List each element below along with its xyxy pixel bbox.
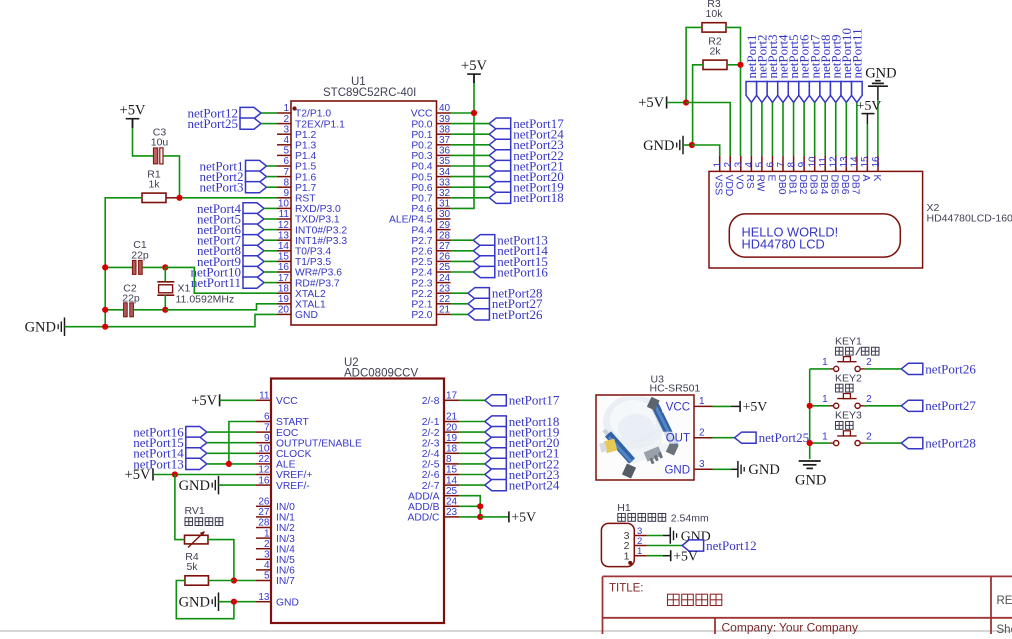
svg-text:40: 40 xyxy=(439,103,451,114)
svg-text:netPort18: netPort18 xyxy=(513,190,564,205)
svg-text:INT0#/P3.2: INT0#/P3.2 xyxy=(295,225,347,236)
svg-text:10: 10 xyxy=(807,156,818,168)
svg-text:38: 38 xyxy=(439,124,451,135)
svg-text:EOC: EOC xyxy=(276,428,299,439)
svg-text:GND: GND xyxy=(25,320,56,336)
junction xyxy=(807,440,813,446)
wire xyxy=(459,452,485,454)
svg-text:RS: RS xyxy=(744,175,755,189)
wire C1 right xyxy=(143,266,166,268)
svg-text:netPort25: netPort25 xyxy=(187,116,238,131)
svg-text:11.0592MHz: 11.0592MHz xyxy=(176,294,235,306)
net port netPort6 xyxy=(797,34,812,103)
net port netPort15 xyxy=(473,254,548,269)
wire xyxy=(459,463,485,465)
wire +5V to VCC xyxy=(220,399,256,401)
wire KEY2 left xyxy=(810,405,830,407)
power +5V (ADD) xyxy=(509,510,536,525)
power +5V (H1) xyxy=(671,548,698,563)
svg-text:P4.6: P4.6 xyxy=(411,204,432,215)
junction xyxy=(471,110,477,116)
wire xyxy=(207,442,256,444)
svg-text:18: 18 xyxy=(446,444,458,455)
wire GND xyxy=(683,144,692,146)
op-amp U1 body (IC STC89C52RC-40I) xyxy=(291,76,437,325)
net port netPort4 xyxy=(776,34,791,103)
svg-text:IN/5: IN/5 xyxy=(276,555,295,566)
svg-text:netPort25: netPort25 xyxy=(759,430,810,445)
wire xyxy=(267,176,278,178)
svg-text:P1.5: P1.5 xyxy=(295,162,316,173)
svg-text:2/-2: 2/-2 xyxy=(422,428,440,439)
svg-text:11: 11 xyxy=(818,157,829,168)
net port netPort13 xyxy=(473,233,548,248)
svg-text:netPort11: netPort11 xyxy=(849,28,864,78)
wire xyxy=(459,484,485,486)
net port netPort20 xyxy=(489,169,564,184)
net port netPort10 xyxy=(190,264,264,279)
wire xyxy=(451,292,468,294)
wire R1 to GND rail xyxy=(105,198,142,327)
net port netPort5 xyxy=(786,34,801,102)
svg-text:4: 4 xyxy=(744,162,755,168)
svg-text:3: 3 xyxy=(283,124,289,135)
net port netPort2 xyxy=(199,169,266,184)
svg-text:27: 27 xyxy=(439,241,451,252)
wire START to ALE xyxy=(229,422,256,464)
wire xyxy=(264,271,277,273)
svg-text:P0.7: P0.7 xyxy=(411,194,432,205)
net port netPort3 xyxy=(199,180,266,195)
svg-text:5k: 5k xyxy=(186,561,198,573)
svg-text:DB2: DB2 xyxy=(797,175,808,195)
power +5V (LCD VDD) xyxy=(638,95,666,111)
wire xyxy=(451,144,490,146)
sensor module U3 HC-SR501 xyxy=(596,374,700,481)
ground (LCD K) xyxy=(865,66,896,87)
svg-text:T2EX/P1.1: T2EX/P1.1 xyxy=(295,119,345,130)
svg-text:+5V: +5V xyxy=(743,399,768,414)
svg-text:11: 11 xyxy=(279,209,290,220)
svg-text:RD#/P3.7: RD#/P3.7 xyxy=(295,278,340,289)
wire (power stem) xyxy=(663,555,671,557)
wire xyxy=(264,218,277,220)
net port netPort8 xyxy=(818,34,833,102)
wire H1 pin1 xyxy=(647,555,663,557)
net port netPort18 xyxy=(489,190,564,205)
wire (power stem) xyxy=(132,119,134,128)
svg-text:netPort28: netPort28 xyxy=(925,436,976,451)
wire XTAL2 net xyxy=(165,267,277,293)
svg-text:A: A xyxy=(860,175,871,182)
svg-text:10: 10 xyxy=(278,199,290,210)
svg-text:26: 26 xyxy=(439,252,451,263)
wire xyxy=(451,250,474,252)
U2 pin numbers xyxy=(258,391,457,603)
ground (VREF-) xyxy=(179,476,219,495)
svg-text:P2.6: P2.6 xyxy=(411,247,432,258)
svg-text:2/-6: 2/-6 xyxy=(422,470,440,481)
svg-text:18: 18 xyxy=(278,283,290,294)
svg-text:HD44780 LCD: HD44780 LCD xyxy=(742,237,825,252)
svg-text:+5V: +5V xyxy=(191,393,217,409)
svg-text:23: 23 xyxy=(439,283,451,294)
svg-text:36: 36 xyxy=(439,146,451,157)
svg-text:GND: GND xyxy=(795,473,826,489)
U1 pin numbers xyxy=(278,103,451,315)
svg-text:Your Company: Your Company xyxy=(779,621,858,635)
svg-text:22p: 22p xyxy=(122,293,140,305)
resistor RV1 (photoresistor) xyxy=(185,505,209,548)
net port netPort7 xyxy=(197,233,264,248)
svg-text:P2.5: P2.5 xyxy=(411,257,432,268)
net port netPort9 xyxy=(828,34,843,102)
svg-text:ADD/B: ADD/B xyxy=(408,502,440,513)
svg-text:netPort12: netPort12 xyxy=(706,538,757,553)
net port netPort2 xyxy=(755,34,770,102)
net port netPort24 xyxy=(485,478,560,493)
net port netPort18 xyxy=(485,414,560,429)
svg-text:H1: H1 xyxy=(617,502,631,514)
wire H1 pin2 xyxy=(647,545,682,547)
wire xyxy=(451,260,474,262)
power +5V (U1 VCC) xyxy=(461,58,487,83)
svg-text:REV: REV xyxy=(997,595,1012,607)
wire xyxy=(761,103,763,157)
X2 pin stubs xyxy=(720,156,878,171)
svg-text:1: 1 xyxy=(637,546,642,557)
wire KEY1 right xyxy=(865,368,902,370)
net port netPort8 xyxy=(197,243,264,258)
svg-text:2: 2 xyxy=(866,394,872,405)
ground (H1) xyxy=(670,527,710,544)
svg-text:IN/0: IN/0 xyxy=(276,502,295,513)
svg-text:P0.0: P0.0 xyxy=(411,119,432,130)
junction xyxy=(683,99,689,105)
ground (keys) xyxy=(795,461,826,489)
svg-text:+5V: +5V xyxy=(461,58,487,74)
wire +5V to VREF/+ xyxy=(153,474,256,476)
svg-text:22: 22 xyxy=(258,454,270,465)
push button KEY3 xyxy=(822,410,872,446)
svg-text:netPort3: netPort3 xyxy=(199,180,243,195)
svg-text:IN/6: IN/6 xyxy=(276,566,295,577)
net port netPort3 xyxy=(765,34,780,102)
svg-text:KEY2: KEY2 xyxy=(835,372,862,384)
svg-text:P0.5: P0.5 xyxy=(411,172,432,183)
capacitor C2 xyxy=(124,303,134,317)
wire R3 right to VO xyxy=(726,27,741,156)
svg-text:19: 19 xyxy=(446,433,458,444)
svg-text:16: 16 xyxy=(258,475,270,486)
junction xyxy=(477,514,483,520)
page edge line xyxy=(0,630,1012,632)
junction xyxy=(176,195,182,201)
wire xyxy=(824,103,826,157)
svg-text:1: 1 xyxy=(822,394,828,405)
svg-text:netPort24: netPort24 xyxy=(509,478,560,493)
wire +5V to P4.6 xyxy=(451,83,475,208)
wire xyxy=(451,165,490,167)
wire C3 to RST node xyxy=(163,156,179,198)
svg-text:netPort17: netPort17 xyxy=(509,393,560,408)
svg-text:6: 6 xyxy=(264,412,270,423)
svg-text:5: 5 xyxy=(755,162,766,168)
net port netPort1 xyxy=(744,34,759,102)
svg-text:DB3: DB3 xyxy=(807,175,818,195)
wire xyxy=(459,474,485,476)
wire xyxy=(459,431,485,433)
svg-text:RXD/P3.0: RXD/P3.0 xyxy=(295,204,341,215)
net port netPort28 xyxy=(468,286,543,301)
label xyxy=(836,422,854,430)
svg-text:29: 29 xyxy=(439,220,451,231)
svg-text:1: 1 xyxy=(713,162,724,168)
svg-text:P0.3: P0.3 xyxy=(411,151,432,162)
wire xyxy=(750,103,752,157)
power +5V (U2 VCC) xyxy=(191,393,219,409)
net port netPort5 xyxy=(197,211,264,226)
wire R2 left to GND xyxy=(693,65,703,145)
net port netPort10 xyxy=(839,28,854,103)
net port netPort21 xyxy=(485,446,560,461)
net port netPort11 xyxy=(849,28,864,102)
svg-text:HC-SR501: HC-SR501 xyxy=(650,383,701,395)
svg-text:DB0: DB0 xyxy=(776,175,787,195)
net port netPort28 xyxy=(901,436,976,451)
svg-text:2/-8: 2/-8 xyxy=(422,396,440,407)
svg-text:15: 15 xyxy=(446,465,458,476)
svg-text:P0.6: P0.6 xyxy=(411,183,432,194)
junction xyxy=(172,471,178,477)
wire KEY1 left xyxy=(810,368,830,370)
net port netPort12 xyxy=(187,105,261,120)
U1 pin stubs xyxy=(277,113,451,314)
svg-text:OUTPUT/ENABLE: OUTPUT/ENABLE xyxy=(276,438,362,449)
junction xyxy=(689,142,695,148)
svg-text:5: 5 xyxy=(264,571,270,582)
wire xyxy=(264,260,277,262)
svg-text:P0.1: P0.1 xyxy=(411,130,432,141)
wire xyxy=(459,421,485,423)
wire xyxy=(261,112,277,114)
wire C1 left xyxy=(105,266,132,268)
wire xyxy=(459,399,485,401)
wire GND to U1 pin20 xyxy=(105,314,277,326)
H1 pin numbers xyxy=(624,526,643,562)
svg-text:GND: GND xyxy=(295,310,318,321)
wire H1 pin3 xyxy=(647,535,663,537)
net port netPort16 xyxy=(133,425,207,440)
net port netPort27 xyxy=(901,398,976,413)
svg-text:2: 2 xyxy=(264,539,270,550)
svg-text:24: 24 xyxy=(439,273,451,284)
svg-text:KEY3: KEY3 xyxy=(835,410,862,422)
wire KEY2 right xyxy=(865,405,902,407)
svg-text:23: 23 xyxy=(446,507,458,518)
junction xyxy=(807,403,813,409)
wire xyxy=(451,133,490,135)
wire C2 right xyxy=(134,309,166,311)
wire (power stem) xyxy=(731,405,740,407)
wire xyxy=(264,229,277,231)
svg-text:6: 6 xyxy=(765,162,776,168)
wire R3 left to +5V xyxy=(686,27,702,102)
svg-text:P2.7: P2.7 xyxy=(411,236,432,247)
wire KEY3 left xyxy=(810,442,830,444)
svg-text:P1.7: P1.7 xyxy=(295,183,316,194)
svg-text:GND: GND xyxy=(179,478,210,494)
svg-text:7: 7 xyxy=(776,162,787,168)
net port netPort19 xyxy=(485,425,560,440)
wire xyxy=(264,250,277,252)
wire xyxy=(261,123,277,125)
svg-text:netPort27: netPort27 xyxy=(925,398,976,413)
svg-text:34: 34 xyxy=(439,167,451,178)
svg-text:12: 12 xyxy=(829,156,840,168)
svg-text:IN/7: IN/7 xyxy=(276,576,295,587)
svg-text:22p: 22p xyxy=(131,250,149,262)
svg-text:5: 5 xyxy=(283,146,289,157)
wire +5V to C3 xyxy=(133,128,154,156)
resistor R1 xyxy=(142,168,166,202)
net port netPort16 xyxy=(473,264,548,279)
svg-text:1k: 1k xyxy=(148,178,160,190)
svg-text:ALE/P4.5: ALE/P4.5 xyxy=(389,215,433,226)
svg-text:netPort26: netPort26 xyxy=(492,307,543,322)
svg-text:35: 35 xyxy=(439,156,451,167)
svg-text:10u: 10u xyxy=(151,137,169,149)
svg-text:IN/1: IN/1 xyxy=(276,513,295,524)
junction xyxy=(102,307,108,313)
junction xyxy=(162,307,168,313)
wire xyxy=(264,239,277,241)
svg-text:13: 13 xyxy=(278,230,290,241)
wire xyxy=(814,103,816,157)
wire R4 right xyxy=(209,580,234,582)
wire xyxy=(451,123,490,125)
svg-text:+5V: +5V xyxy=(857,98,882,113)
wire to pin15 xyxy=(866,124,868,156)
svg-text:9: 9 xyxy=(264,433,270,444)
net port netPort19 xyxy=(489,180,564,195)
svg-text:1: 1 xyxy=(264,528,270,539)
wire xyxy=(451,176,490,178)
svg-text:RST: RST xyxy=(295,194,316,205)
net port netPort1 xyxy=(199,158,266,173)
svg-text:17: 17 xyxy=(278,273,290,284)
svg-text:KEY1: KEY1 xyxy=(835,335,862,347)
svg-text:P0.4: P0.4 xyxy=(411,162,432,173)
svg-text:4: 4 xyxy=(283,135,289,146)
svg-text:P2.2: P2.2 xyxy=(411,289,432,300)
svg-text:10: 10 xyxy=(258,444,270,455)
wire (power stem) xyxy=(866,114,868,124)
svg-text:HD44780LCD-1602: HD44780LCD-1602 xyxy=(927,213,1012,225)
svg-text:14: 14 xyxy=(446,475,458,486)
svg-text:VSS: VSS xyxy=(713,175,724,196)
wire xyxy=(771,103,773,157)
label 光敏电阻 xyxy=(185,518,223,526)
wire xyxy=(264,282,277,284)
wire xyxy=(793,103,795,157)
X2 pin numbers xyxy=(713,156,882,168)
wire (gnd stem) xyxy=(877,87,879,101)
svg-text:DB5: DB5 xyxy=(829,175,840,195)
power +5V (reset) xyxy=(120,103,146,128)
svg-text:XTAL1: XTAL1 xyxy=(295,300,326,311)
svg-text:31: 31 xyxy=(439,199,451,210)
svg-text:24: 24 xyxy=(446,497,458,508)
svg-text:T0/P3.4: T0/P3.4 xyxy=(295,247,331,258)
label xyxy=(836,347,880,355)
svg-text:VCC: VCC xyxy=(276,396,298,407)
junction xyxy=(162,264,168,270)
svg-text:1: 1 xyxy=(822,431,828,442)
net port netPort4 xyxy=(197,201,264,216)
wire xyxy=(451,186,490,188)
net port netPort15 xyxy=(133,435,207,450)
H1 pin stubs xyxy=(634,536,647,556)
resistor R4 xyxy=(185,551,209,585)
svg-text:13: 13 xyxy=(839,156,850,168)
title block frame xyxy=(603,576,1012,634)
svg-text:+5V: +5V xyxy=(638,95,664,111)
net port netPort26 xyxy=(468,307,543,322)
wire +5V to RV1 xyxy=(175,475,185,540)
svg-text:3: 3 xyxy=(734,162,745,168)
U3 pin stubs xyxy=(694,406,713,469)
svg-text:+5V: +5V xyxy=(125,467,151,483)
net port netPort22 xyxy=(485,456,560,471)
svg-text:39: 39 xyxy=(439,114,451,125)
svg-text:VDD: VDD xyxy=(723,175,734,197)
svg-text:START: START xyxy=(276,417,310,428)
svg-text:P2.4: P2.4 xyxy=(411,268,432,279)
svg-text:4: 4 xyxy=(264,560,270,571)
svg-text:GND: GND xyxy=(748,462,779,478)
svg-text:DB6: DB6 xyxy=(839,175,850,195)
svg-text:6: 6 xyxy=(283,156,289,167)
svg-text:P1.6: P1.6 xyxy=(295,172,316,183)
svg-text:E: E xyxy=(765,175,776,182)
wire xyxy=(207,463,256,465)
wire R4 to GND xyxy=(176,581,234,619)
svg-text:VREF/-: VREF/- xyxy=(276,481,310,492)
U2 pin stubs xyxy=(256,400,459,601)
wire (power stem) xyxy=(473,74,475,83)
net port netPort25 xyxy=(187,116,261,131)
svg-text:11: 11 xyxy=(259,391,270,402)
svg-text:12: 12 xyxy=(258,465,270,476)
svg-text:DB7: DB7 xyxy=(850,175,861,195)
svg-text:28: 28 xyxy=(258,518,270,529)
svg-text:37: 37 xyxy=(439,135,451,146)
svg-text:P1.2: P1.2 xyxy=(295,130,316,141)
svg-text:STC89C52RC-40I: STC89C52RC-40I xyxy=(323,87,416,99)
svg-text:17: 17 xyxy=(446,391,458,402)
svg-text:22: 22 xyxy=(439,294,451,305)
svg-text:14: 14 xyxy=(278,241,290,252)
svg-text:GND: GND xyxy=(179,595,210,611)
svg-text:VCC: VCC xyxy=(411,109,433,120)
svg-text:21: 21 xyxy=(446,412,458,423)
svg-text:8: 8 xyxy=(786,162,797,168)
push button KEY2 xyxy=(822,372,872,408)
wire RST net xyxy=(180,197,278,199)
wire GND to pin13 xyxy=(219,601,257,603)
svg-text:IN/2: IN/2 xyxy=(276,523,295,534)
